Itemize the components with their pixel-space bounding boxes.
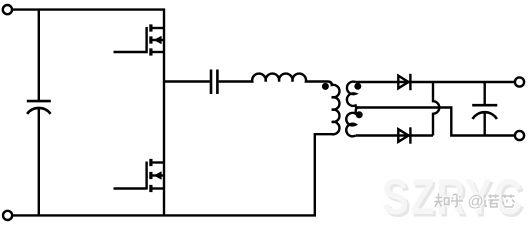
T1 secondary winding 2 dot [356,111,363,118]
wire bottom rail [12,214,316,216]
wire D2 cathode to + rail with hop over center tap [433,82,439,136]
watermark SZRYC [382,169,524,225]
Q1 body stub [151,39,164,41]
diode D2 [398,129,408,142]
Q1 gate lead [114,51,147,53]
Q2 drain stub [151,161,164,163]
T1 secondary winding 1 dot [354,83,361,90]
wire secondary bottom rail with D2 [356,134,433,136]
wire input cap branch top [38,10,40,100]
Q1 source stub [151,51,164,53]
input terminal - (bottom left) [3,211,12,220]
output terminal - [515,131,524,140]
Q2 source stub [151,187,164,189]
Q2 gate lead [114,187,147,189]
Q2 body arrow [154,171,162,180]
Q2 gate bar [145,162,147,190]
Q1 gate bar [145,27,147,53]
wire output cap bottom lead [484,113,486,135]
wire midpoint to resonant cap [164,80,210,82]
Q1 channel bars [149,24,152,55]
transformer T1 primary dot [322,83,329,90]
capacitor Co (output, polarized) [472,104,497,107]
Q1 body arrow [154,36,162,45]
wire output cap top lead [484,82,486,104]
Q2 channel bars [149,159,152,192]
D2 cathode bar [409,127,411,143]
transistor Q2 (bottom MOSFET) [114,159,165,192]
output terminal + [515,77,524,86]
wire top rail and half-bridge vertical [12,10,164,216]
wire center tap to output - rail [359,108,515,136]
wire Cr to Lr, inductor Lr, wire to primary, primary coil, primary return [219,74,340,216]
capacitor C1 (input, polarized) [27,100,51,103]
D1 cathode bar [409,74,411,90]
Q2 body stub [151,174,164,176]
Q1 drain stub [151,27,164,29]
wire input cap branch bottom [38,109,40,216]
watermark SZRYC shadow [384,171,526,227]
wire secondary top rail (+) to output terminal [356,81,515,83]
svg-text:@: @ [468,194,484,211]
T1 secondary winding 2 (bottom) [346,108,358,137]
transistor Q1 (top MOSFET) [114,24,165,55]
diode D1 [398,76,408,89]
capacitor Cr (resonant) [211,70,217,95]
watermark zhihu text 知乎 @诺芯 [435,194,516,212]
T1 secondary winding 1 (top) [347,82,359,108]
input terminal + (top left) [3,5,12,14]
